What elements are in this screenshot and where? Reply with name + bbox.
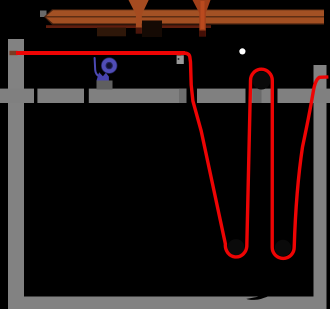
bottom roller 2 (black) (275, 240, 291, 256)
blue icon donut ring (104, 60, 115, 71)
darker bar segment left of descent (179, 89, 187, 103)
overhead rail left gray cap (40, 11, 47, 18)
guide roller axle dot (178, 58, 180, 60)
blue icon donut outer (101, 57, 117, 73)
dark residue right of funnel 1 (142, 21, 162, 38)
orange smudge at bend (178, 54, 182, 56)
funnel F1 dark tip (136, 28, 142, 34)
funnel F2 dark tip (199, 31, 206, 37)
strand horizontal feed (red) (16, 51, 185, 55)
maroon feed pipe under rail (46, 25, 211, 28)
shaded bar segment under top roller (252, 89, 261, 103)
overhead rail lower orange band (46, 17, 324, 23)
overhead rail dark body (44, 9, 324, 24)
bar gap right of top roller (273, 88, 278, 104)
funnel F1 (129, 0, 149, 34)
top roller (black) (252, 72, 270, 90)
blue icon donut hole (107, 63, 112, 68)
tank left wall (8, 39, 24, 309)
bath surface bar (0, 89, 330, 103)
strand entry tip (brown) (10, 51, 18, 55)
tank right wall (314, 65, 327, 309)
black probe line crossing bar (34, 78, 37, 106)
direction arrow on bottom wall (246, 286, 278, 300)
bar gap under icon (84, 88, 89, 104)
direction arrow tail (259, 272, 271, 294)
bar gap left of top roller (246, 88, 250, 104)
white indicator dot (239, 48, 245, 54)
guide roller at bend (177, 55, 184, 64)
icon pedestal (97, 81, 113, 90)
strand loop path (red) (184, 53, 329, 258)
overhead rail upper orange band (46, 10, 324, 16)
brown patch below rail (97, 28, 126, 37)
funnel F2 (193, 0, 211, 37)
bottom roller 1 (black) (228, 239, 245, 256)
blue icon stem (95, 58, 100, 77)
tank bottom wall (8, 297, 327, 309)
blue icon blob (97, 72, 109, 80)
bar gap at strand descent (187, 88, 198, 104)
funnel F2 red streak (201, 1, 205, 29)
